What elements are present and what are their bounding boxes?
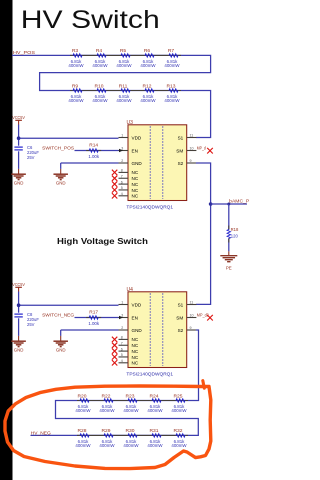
svg-text:4: 4 (121, 192, 123, 196)
svg-text:1.00k: 1.00k (88, 154, 100, 159)
svg-text:400mW: 400mW (123, 408, 139, 413)
svg-text:R13: R13 (167, 83, 176, 89)
svg-text:NC: NC (132, 349, 139, 354)
svg-text:R18: R18 (231, 227, 239, 232)
svg-text:S2: S2 (178, 161, 184, 166)
svg-text:R9: R9 (72, 83, 79, 89)
svg-text:9: 9 (190, 326, 192, 330)
svg-text:R5: R5 (120, 48, 127, 54)
svg-text:7: 7 (121, 341, 123, 345)
svg-text:R7: R7 (168, 48, 175, 54)
svg-text:High Voltage Switch: High Voltage Switch (57, 237, 148, 246)
svg-text:R17: R17 (89, 309, 98, 315)
svg-text:S1: S1 (178, 302, 184, 307)
svg-text:NC: NC (132, 182, 139, 187)
svg-text:2: 2 (121, 326, 123, 330)
svg-text:1: 1 (121, 301, 123, 305)
svg-text:R20: R20 (78, 393, 87, 399)
svg-text:R24: R24 (150, 393, 159, 399)
svg-text:PE: PE (226, 266, 232, 271)
svg-text:HV_POS: HV_POS (13, 50, 35, 56)
svg-text:U3: U3 (127, 120, 134, 126)
svg-text:400mW: 400mW (68, 63, 84, 68)
svg-text:VDD: VDD (132, 302, 142, 307)
svg-text:R6: R6 (144, 48, 151, 54)
svg-text:400mW: 400mW (75, 443, 91, 448)
svg-text:400mW: 400mW (147, 408, 163, 413)
svg-text:R4: R4 (96, 48, 103, 54)
svg-text:6: 6 (121, 180, 123, 184)
svg-text:7: 7 (121, 174, 123, 178)
svg-text:R23: R23 (126, 393, 135, 399)
svg-text:EN: EN (132, 315, 138, 320)
svg-text:GND: GND (132, 161, 143, 166)
svg-text:GND: GND (132, 328, 143, 333)
svg-text:8: 8 (121, 336, 123, 340)
svg-text:25V: 25V (27, 155, 35, 160)
svg-text:R14: R14 (89, 142, 98, 148)
svg-text:R22: R22 (102, 393, 111, 399)
svg-text:400mW: 400mW (116, 63, 132, 68)
svg-text:TPSI2140QDWQRQ1: TPSI2140QDWQRQ1 (126, 372, 173, 377)
svg-text:10: 10 (190, 314, 194, 318)
svg-text:400mW: 400mW (99, 443, 115, 448)
svg-text:GND: GND (56, 348, 66, 353)
svg-text:R25: R25 (174, 393, 183, 399)
svg-text:SWITCH_POS: SWITCH_POS (42, 145, 74, 151)
svg-text:4: 4 (121, 359, 123, 363)
svg-text:GND: GND (14, 348, 24, 353)
svg-text:10: 10 (190, 147, 194, 151)
svg-text:R29: R29 (102, 428, 111, 434)
svg-text:NC: NC (132, 343, 139, 348)
svg-text:TPSI2140QDWQRQ1: TPSI2140QDWQRQ1 (126, 205, 173, 210)
svg-text:U4: U4 (127, 287, 134, 293)
svg-text:S1: S1 (178, 135, 184, 140)
svg-text:R28: R28 (78, 428, 87, 434)
svg-text:6: 6 (121, 347, 123, 351)
svg-text:S2: S2 (178, 328, 184, 333)
svg-text:NC: NC (132, 188, 139, 193)
svg-text:11: 11 (190, 301, 194, 305)
svg-text:1: 1 (121, 134, 123, 138)
svg-text:400mW: 400mW (68, 98, 84, 103)
svg-text:R12: R12 (143, 83, 152, 89)
svg-text:NC: NC (132, 355, 139, 360)
svg-text:400mW: 400mW (171, 408, 187, 413)
svg-text:400mW: 400mW (140, 63, 156, 68)
svg-text:400mW: 400mW (147, 443, 163, 448)
svg-text:VCC5V: VCC5V (12, 115, 25, 120)
svg-text:400mW: 400mW (164, 98, 180, 103)
svg-text:25V: 25V (27, 322, 35, 327)
svg-text:5: 5 (121, 353, 123, 357)
svg-text:2: 2 (121, 159, 123, 163)
svg-text:NC: NC (132, 361, 139, 366)
svg-text:R31: R31 (150, 428, 159, 434)
svg-text:VCC5V: VCC5V (12, 282, 25, 287)
svg-text:bAMC_P: bAMC_P (229, 199, 249, 204)
svg-text:VDD: VDD (132, 135, 142, 140)
svg-text:400mW: 400mW (99, 408, 115, 413)
svg-text:MP_d: MP_d (197, 146, 207, 151)
svg-text:R30: R30 (126, 428, 135, 434)
svg-text:NC: NC (132, 337, 139, 342)
svg-text:R3: R3 (72, 48, 79, 54)
svg-text:400mW: 400mW (123, 443, 139, 448)
svg-text:8: 8 (121, 169, 123, 173)
svg-text:1.00k: 1.00k (88, 321, 100, 326)
svg-text:120: 120 (231, 234, 239, 239)
svg-text:400mW: 400mW (140, 98, 156, 103)
svg-text:GND: GND (14, 181, 24, 186)
svg-text:SWITCH_NEG: SWITCH_NEG (42, 312, 74, 318)
svg-text:NC: NC (132, 176, 139, 181)
svg-text:SM: SM (176, 148, 183, 153)
svg-text:SM: SM (176, 315, 183, 320)
svg-text:400mW: 400mW (92, 98, 108, 103)
svg-text:R32: R32 (174, 428, 183, 434)
svg-text:9: 9 (190, 159, 192, 163)
svg-text:400mW: 400mW (92, 63, 108, 68)
svg-text:5: 5 (121, 186, 123, 190)
svg-text:R10: R10 (95, 83, 104, 89)
svg-text:EN: EN (132, 148, 138, 153)
svg-text:NC: NC (132, 194, 139, 199)
svg-text:400mW: 400mW (171, 443, 187, 448)
svg-text:11: 11 (190, 134, 194, 138)
svg-text:GND: GND (56, 181, 66, 186)
svg-text:HV_NEG: HV_NEG (31, 430, 51, 436)
svg-text:HV Switch: HV Switch (21, 5, 160, 33)
svg-text:R11: R11 (119, 83, 128, 89)
svg-text:400mW: 400mW (75, 408, 91, 413)
svg-text:400mW: 400mW (116, 98, 132, 103)
svg-text:400mW: 400mW (164, 63, 180, 68)
svg-text:NC: NC (132, 170, 139, 175)
